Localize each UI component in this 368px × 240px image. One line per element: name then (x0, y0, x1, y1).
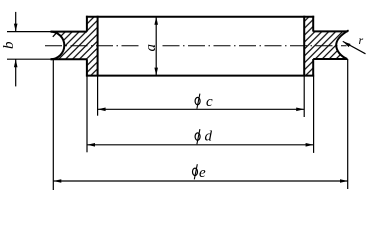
svg-text:a: a (143, 44, 159, 52)
svg-text:b: b (1, 41, 17, 49)
svg-text:e: e (199, 165, 206, 181)
svg-text:c: c (206, 94, 213, 110)
svg-text:r: r (359, 33, 364, 47)
svg-text:d: d (205, 128, 213, 144)
